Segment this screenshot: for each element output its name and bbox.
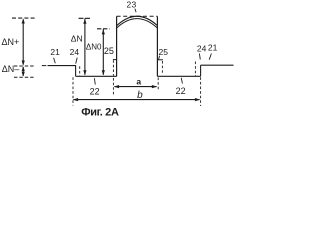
svg-text:ΔN–: ΔN– <box>2 64 20 74</box>
svg-text:ΔN: ΔN <box>71 34 83 44</box>
svg-text:ΔN0: ΔN0 <box>86 42 102 51</box>
svg-text:23: 23 <box>127 0 137 10</box>
svg-text:25: 25 <box>159 47 169 57</box>
svg-text:ΔN+: ΔN+ <box>2 37 20 47</box>
svg-text:24: 24 <box>70 47 80 57</box>
svg-text:21: 21 <box>50 47 60 57</box>
svg-text:24: 24 <box>197 43 207 53</box>
svg-text:21: 21 <box>208 42 218 52</box>
svg-text:b: b <box>137 90 143 101</box>
svg-text:22: 22 <box>90 87 100 97</box>
svg-text:22: 22 <box>176 86 186 96</box>
svg-text:Фиг. 2А: Фиг. 2А <box>81 107 119 119</box>
svg-text:a: a <box>136 76 141 86</box>
svg-text:25: 25 <box>104 46 114 56</box>
